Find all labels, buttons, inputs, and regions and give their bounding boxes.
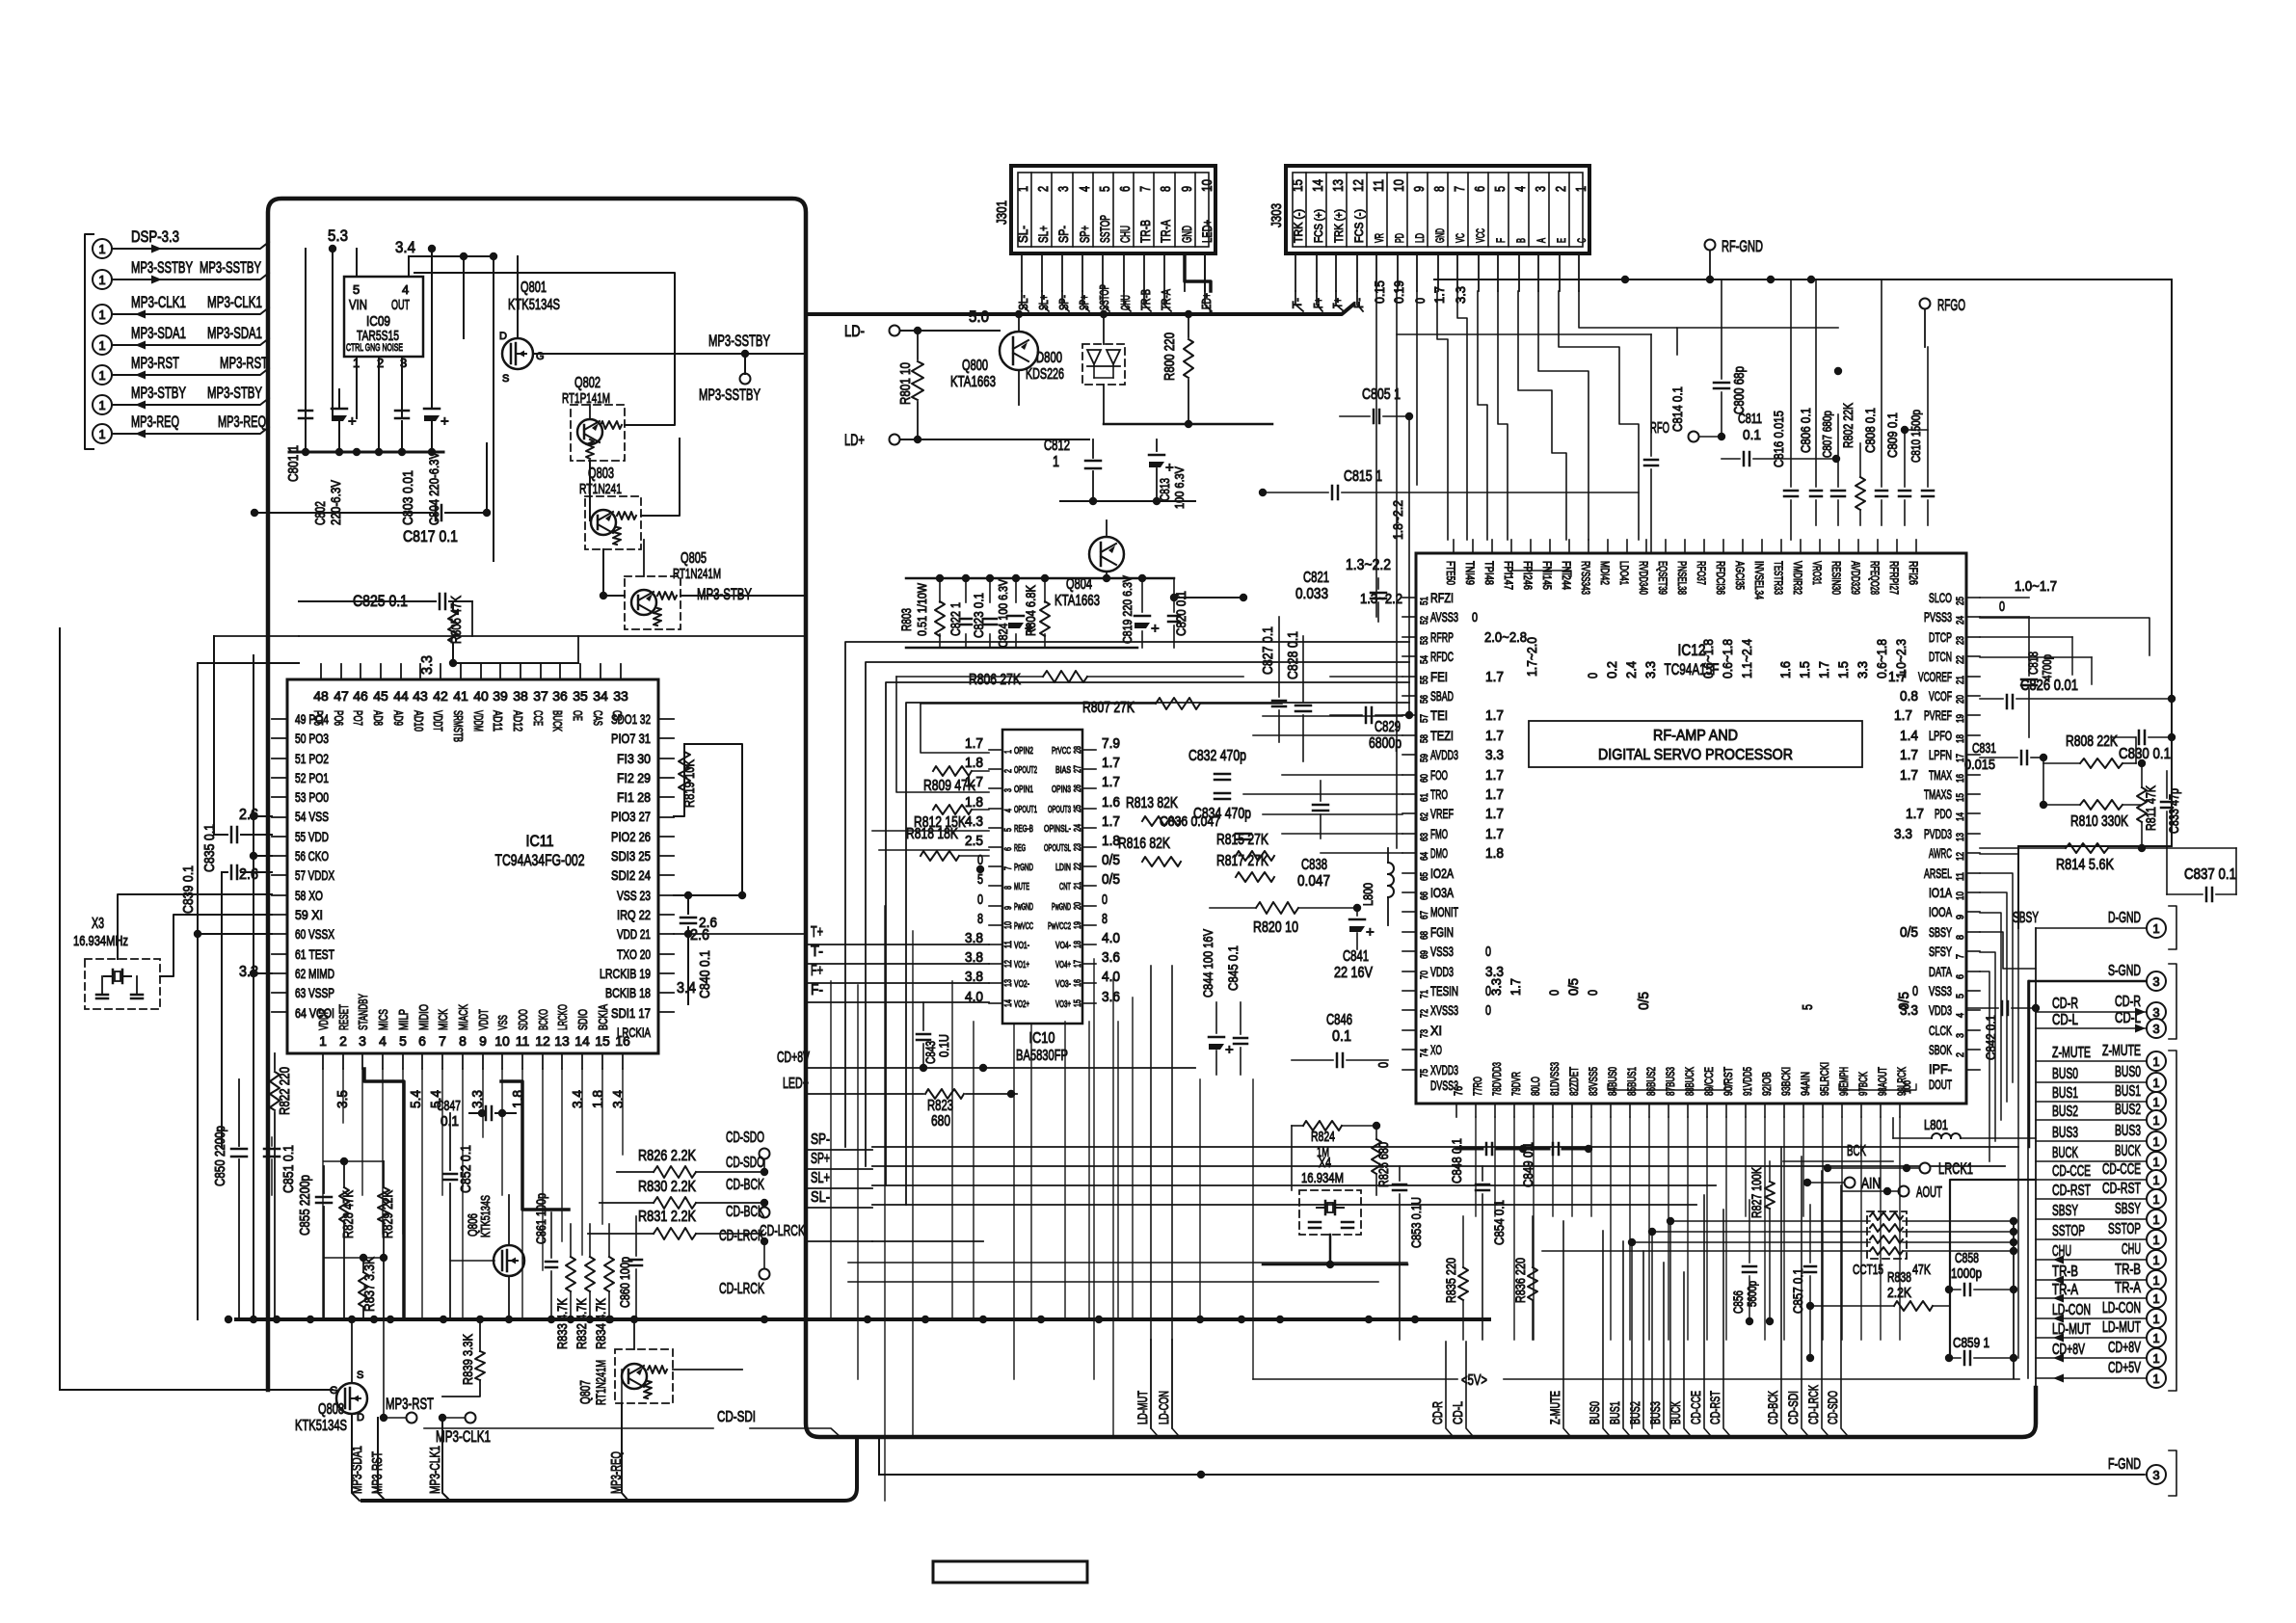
svg-text:R834 4.7K: R834 4.7K (593, 1297, 608, 1349)
svg-text:TESIN: TESIN (1430, 983, 1458, 998)
svg-text:6: 6 (1472, 186, 1488, 192)
IC12 pin 33 TESTR (1780, 540, 1782, 553)
edge port BUS2 (2147, 1110, 2166, 1130)
transistor Q801 KTK5134S (502, 338, 533, 369)
svg-text:22: 22 (1073, 863, 1083, 870)
IC12 pin 92 IOB (1764, 1104, 1766, 1117)
IC12 pin 57 TEI (1402, 714, 1416, 716)
svg-text:VDDT: VDDT (476, 1009, 491, 1030)
svg-text:16: 16 (1955, 774, 1966, 783)
svg-text:91VDD5: 91VDD5 (1741, 1067, 1754, 1096)
IC10 pin 16 VO3- (1082, 982, 1096, 984)
IC12 pin 59 AVDD3 (1402, 754, 1416, 756)
transistor Q805 RT1N241M (625, 576, 681, 629)
svg-text:SL+: SL+ (811, 1170, 830, 1186)
svg-text:8: 8 (1003, 886, 1014, 890)
svg-text:KTK5134S: KTK5134S (508, 297, 560, 313)
svg-text:3: 3 (1055, 186, 1072, 192)
svg-text:BCKIA: BCKIA (596, 1004, 610, 1030)
svg-text:0.047: 0.047 (1297, 873, 1330, 890)
svg-text:RT1N241M: RT1N241M (673, 566, 721, 582)
svg-text:TNI49: TNI49 (1463, 561, 1477, 585)
IC12 pin 5 VSS3 (1966, 990, 1980, 992)
IC12 pin 72 XVSS3 (1402, 1009, 1416, 1011)
svg-text:SP-: SP- (811, 1131, 830, 1148)
IC12 pin 88 BUCK (1687, 1104, 1689, 1117)
IC10 pin 3 OPIN1 (989, 787, 1002, 789)
svg-text:58 XO: 58 XO (295, 888, 323, 903)
svg-text:CD-SDO: CD-SDO (1825, 1391, 1840, 1424)
svg-text:MP3-REQ: MP3-REQ (218, 412, 266, 431)
svg-text:13: 13 (1003, 979, 1014, 987)
IC10 pin 17 VO4+ (1082, 963, 1096, 965)
svg-text:1.5: 1.5 (1835, 661, 1851, 678)
svg-text:R806 27K: R806 27K (969, 672, 1021, 688)
svg-text:Q802: Q802 (574, 375, 601, 391)
svg-text:CD-SDO: CD-SDO (726, 1130, 764, 1146)
svg-text:RFI26: RFI26 (1907, 561, 1920, 585)
svg-text:R816 82K: R816 82K (1118, 836, 1170, 852)
svg-text:SL+: SL+ (1035, 226, 1051, 243)
IC12 pin 25 SLCO (1966, 597, 1980, 599)
svg-text:8: 8 (1955, 935, 1966, 940)
IC11 pin 53 PO0 (272, 796, 287, 798)
svg-text:CD+8V: CD+8V (2052, 1342, 2085, 1358)
svg-text:15: 15 (595, 1033, 610, 1049)
svg-text:MICS: MICS (376, 1009, 390, 1030)
svg-text:0.6~1.8: 0.6~1.8 (1720, 639, 1735, 678)
svg-text:C847: C847 (437, 1098, 461, 1114)
svg-text:97BCK: 97BCK (1856, 1072, 1870, 1096)
IC12 left pin wires (1330, 676, 1402, 678)
svg-text:7.9: 7.9 (1102, 735, 1120, 752)
svg-text:GND: GND (1433, 228, 1447, 243)
svg-text:C805 1: C805 1 (1362, 386, 1401, 403)
svg-text:2: 2 (1003, 769, 1014, 773)
svg-text:C861 100p: C861 100p (533, 1193, 548, 1244)
svg-text:7: 7 (439, 1033, 446, 1049)
svg-text:6: 6 (1955, 974, 1966, 979)
svg-text:T-: T- (811, 944, 823, 960)
IC12 pin 22 DTCN (1966, 655, 1980, 657)
IC11 pin 47 PO6 (340, 664, 342, 679)
svg-text:C848 0.1: C848 0.1 (1449, 1138, 1464, 1184)
svg-text:MDI42: MDI42 (1598, 561, 1612, 585)
IC10 pin 14 VO2+ (989, 1002, 1002, 1004)
wire DSP-3.3 to IC09 VIN (356, 249, 358, 277)
svg-text:72: 72 (1419, 1009, 1430, 1018)
svg-text:8: 8 (1431, 186, 1448, 192)
capacitor C801 1 (305, 249, 307, 452)
IC12 pin 52 AVSS3 (1402, 616, 1416, 618)
svg-text:59 XI: 59 XI (295, 907, 323, 922)
svg-text:VSS 23: VSS 23 (617, 888, 651, 903)
svg-text:0/5: 0/5 (1102, 852, 1120, 868)
IC11 pin 8 (462, 1053, 464, 1069)
svg-text:LPFO: LPFO (1929, 728, 1952, 743)
svg-text:0.1: 0.1 (1743, 427, 1761, 443)
edge port CD-L (2147, 1019, 2166, 1038)
svg-text:0: 0 (1485, 1002, 1491, 1019)
edge port F-GND (2147, 1465, 2166, 1484)
svg-text:CCE: CCE (531, 710, 546, 726)
svg-text:R823: R823 (927, 1098, 953, 1114)
svg-text:0.1: 0.1 (1332, 1028, 1351, 1045)
input port MP3-CLK1 (93, 305, 112, 324)
svg-text:SBSY: SBSY (2115, 1201, 2141, 1217)
svg-text:FTE50: FTE50 (1444, 561, 1457, 585)
capacitor C820 0.1 (1168, 615, 1180, 618)
svg-text:C844 100 16V: C844 100 16V (1200, 928, 1215, 998)
svg-text:SSTOP: SSTOP (2052, 1223, 2085, 1239)
svg-text:60: 60 (1419, 774, 1430, 783)
svg-text:R831 2.2K: R831 2.2K (638, 1209, 696, 1225)
svg-text:1: 1 (1003, 750, 1014, 754)
svg-text:FCS (-): FCS (-) (1352, 209, 1366, 243)
IC12 pin 11 ARSEL (1966, 872, 1980, 874)
svg-text:28: 28 (1073, 746, 1083, 754)
svg-text:66: 66 (1419, 891, 1430, 900)
edge collector verticals (2035, 928, 2037, 1394)
svg-text:1.8~2.2: 1.8~2.2 (1390, 500, 1405, 540)
IC11 pin 42 VDDT (440, 664, 441, 679)
svg-text:C858: C858 (1955, 1250, 1979, 1266)
svg-text:14: 14 (574, 1033, 590, 1049)
svg-text:AWRC: AWRC (1929, 845, 1952, 861)
long horizontals right of module (872, 1146, 2018, 1148)
IC12 pin 67 MONIT (1402, 911, 1416, 913)
IC11 pin 20 TXO (658, 953, 674, 955)
svg-text:24: 24 (1955, 616, 1966, 625)
svg-text:3.3: 3.3 (1485, 964, 1504, 980)
IC11 pin 22 IRQ (658, 914, 674, 916)
svg-text:AVSS3: AVSS3 (1430, 609, 1458, 625)
svg-text:C824 100 6.3V: C824 100 6.3V (996, 579, 1010, 648)
IC12 pin 48 TPI (1491, 540, 1493, 553)
svg-text:15: 15 (1290, 179, 1306, 192)
IC11 pin 23 VSS (658, 894, 674, 896)
svg-text:SBSY: SBSY (2013, 910, 2039, 926)
wires IC09 pins down (356, 357, 358, 418)
svg-text:TR-B: TR-B (2115, 1262, 2141, 1278)
svg-text:5: 5 (977, 871, 983, 888)
IC10 pin 26 OPIN3 (1082, 787, 1096, 789)
svg-text:C821: C821 (1303, 570, 1329, 586)
svg-text:C833 47p: C833 47p (2166, 788, 2181, 834)
svg-text:55: 55 (1419, 676, 1430, 684)
svg-text:19: 19 (1073, 921, 1083, 929)
svg-text:PwGND: PwGND (1052, 902, 1071, 913)
svg-text:+: + (348, 413, 357, 430)
svg-text:11: 11 (1955, 872, 1966, 881)
svg-text:15: 15 (1955, 793, 1966, 802)
svg-text:LRCKO: LRCKO (555, 1004, 570, 1030)
IC12 pin 17 LPFN (1966, 754, 1980, 756)
svg-text:TESTR33: TESTR33 (1772, 561, 1785, 595)
svg-text:SBOK: SBOK (1929, 1042, 1952, 1057)
svg-text:10: 10 (1003, 921, 1014, 929)
svg-text:MP3-SSTBY: MP3-SSTBY (699, 386, 761, 404)
svg-text:20: 20 (1073, 902, 1083, 910)
edge port BUS3 (2147, 1131, 2166, 1151)
capacitor C843 0.1U (917, 1033, 930, 1036)
IC12 pin 80 LO (1533, 1104, 1535, 1117)
svg-text:4: 4 (379, 1033, 387, 1049)
svg-text:BUS3: BUS3 (1647, 1401, 1663, 1424)
svg-text:F: F (1494, 238, 1508, 243)
svg-text:BUCK: BUCK (2115, 1143, 2141, 1159)
svg-text:CTRL GNG NOISE: CTRL GNG NOISE (346, 342, 403, 354)
svg-text:VREF: VREF (1430, 806, 1454, 821)
svg-text:B: B (1514, 238, 1528, 243)
terminal LRCK1 (1920, 1163, 1931, 1174)
svg-text:PVDD3: PVDD3 (1924, 826, 1952, 841)
IC12 pin 64 DMO (1402, 852, 1416, 854)
svg-text:XVSS3: XVSS3 (1430, 1002, 1458, 1018)
IC11 pin 43 AD10 (419, 664, 421, 679)
svg-text:PVREF: PVREF (1924, 707, 1952, 723)
svg-text:PrGND: PrGND (1014, 863, 1033, 873)
svg-text:68: 68 (1419, 931, 1430, 940)
resistors R833 R832 R834 4.7K (566, 1257, 575, 1291)
svg-text:16: 16 (615, 1033, 630, 1049)
svg-text:XI: XI (1430, 1023, 1442, 1038)
resistor R820 10 (1256, 902, 1298, 914)
MP3 bottom thick bus (362, 1437, 857, 1501)
svg-text:D: D (499, 331, 507, 342)
svg-text:F-: F- (811, 982, 823, 998)
svg-text:CD-RST: CD-RST (2102, 1181, 2141, 1197)
IC12 pin 95 LRCKI (1822, 1104, 1824, 1117)
svg-text:21: 21 (1955, 676, 1966, 684)
IC12 pin 77 RO (1475, 1104, 1477, 1117)
IC11 pin 16 (622, 1053, 624, 1069)
svg-text:0.2: 0.2 (1604, 661, 1619, 678)
svg-text:IOOA: IOOA (1929, 904, 1952, 919)
svg-text:3.4: 3.4 (677, 980, 696, 997)
svg-text:TPI48: TPI48 (1482, 561, 1496, 585)
svg-text:RT1N241: RT1N241 (579, 481, 622, 497)
svg-text:MUTE: MUTE (1014, 882, 1029, 892)
IC11 pin 63 VSSP (272, 992, 287, 994)
svg-text:BUS2: BUS2 (2115, 1102, 2141, 1118)
svg-text:PwGND: PwGND (1014, 902, 1033, 913)
svg-text:22 16V: 22 16V (1334, 965, 1373, 981)
IC12 pin 74 XO (1402, 1049, 1416, 1051)
svg-text:Z-MUTE: Z-MUTE (1547, 1391, 1562, 1424)
svg-text:OPIN2: OPIN2 (1014, 746, 1033, 757)
svg-text:SLCO: SLCO (1929, 590, 1952, 605)
svg-text:1.7: 1.7 (1431, 286, 1447, 304)
svg-text:VO2+: VO2+ (1014, 999, 1029, 1010)
capacitor C803 0.01 (395, 410, 409, 412)
IC12 pin 91 VDD5 (1745, 1104, 1747, 1117)
IC12 pin 65 IO2A (1402, 872, 1416, 874)
svg-text:8: 8 (459, 1033, 467, 1049)
svg-text:0.8: 0.8 (1900, 688, 1918, 705)
IC12 pin 42 MDI (1607, 540, 1609, 553)
svg-text:VCOREF: VCOREF (1918, 669, 1952, 684)
svg-text:C809 0.1: C809 0.1 (1884, 412, 1900, 458)
IC12 pin 46 FPI2 (1530, 540, 1532, 553)
capacitor C819 220 6.3V (1135, 615, 1150, 618)
IC10 pin 9 PwGND (989, 905, 1002, 907)
svg-text:L800: L800 (1360, 883, 1375, 906)
svg-text:67: 67 (1419, 911, 1430, 919)
svg-text:LD-MUT: LD-MUT (2052, 1321, 2091, 1338)
svg-text:1: 1 (2152, 1134, 2159, 1149)
svg-text:10: 10 (1955, 891, 1966, 900)
svg-text:R830 2.2K: R830 2.2K (638, 1179, 696, 1195)
svg-text:1: 1 (2152, 1076, 2159, 1090)
svg-text:1.6: 1.6 (1102, 794, 1120, 811)
svg-text:0/5: 0/5 (1565, 978, 1581, 996)
svg-text:OPOUT3: OPOUT3 (1048, 805, 1071, 815)
J303 staircase wires (1375, 291, 1377, 617)
svg-text:CD-LRCK: CD-LRCK (760, 1223, 805, 1239)
svg-text:TR-A: TR-A (2052, 1282, 2078, 1298)
svg-text:78DVDD3: 78DVDD3 (1490, 1062, 1504, 1096)
svg-text:R815 27K: R815 27K (1216, 832, 1268, 848)
svg-text:BUS0: BUS0 (2052, 1066, 2078, 1082)
IC12 pin 21 VCOREF (1966, 676, 1980, 678)
svg-text:12: 12 (1955, 852, 1966, 861)
svg-text:TRK (-): TRK (-) (1292, 209, 1305, 243)
svg-text:1.5: 1.5 (1797, 661, 1812, 678)
resistor R805 47K (448, 610, 458, 643)
IC12 pin 39 EQSET (1665, 540, 1667, 553)
svg-text:1: 1 (2152, 1273, 2159, 1288)
IC12 pin 71 TESIN (1402, 990, 1416, 992)
resistor R829 22K (378, 1187, 389, 1222)
svg-text:3: 3 (1955, 1033, 1966, 1038)
IC10 pin 8 MUTE (989, 885, 1002, 887)
input port MP3-REQ (93, 424, 112, 443)
svg-text:MP3-CLK1: MP3-CLK1 (131, 293, 186, 311)
IC10 pin 28 PrVCC (1082, 749, 1096, 751)
svg-text:3.8: 3.8 (965, 930, 983, 946)
IC11 pin 44 AD9 (400, 664, 402, 679)
transistor Q807 RT1N241M (615, 1349, 673, 1403)
svg-text:LD+: LD+ (844, 431, 865, 449)
IC10 pin 10 PwVCC (989, 924, 1002, 926)
svg-text:D: D (357, 1412, 364, 1423)
svg-text:3.4: 3.4 (570, 1090, 586, 1108)
svg-text:64: 64 (1419, 852, 1430, 861)
svg-text:BCKO: BCKO (536, 1009, 550, 1030)
svg-text:MP3-STBY: MP3-STBY (131, 384, 186, 402)
svg-text:51 PO2: 51 PO2 (295, 751, 329, 766)
svg-text:C857 0.1: C857 0.1 (1790, 1268, 1805, 1314)
svg-text:BUS3: BUS3 (2052, 1125, 2078, 1141)
svg-text:MP3-SDA1: MP3-SDA1 (131, 324, 186, 342)
svg-text:1: 1 (2152, 1192, 2159, 1207)
svg-text:RFZI: RFZI (1430, 590, 1454, 605)
svg-text:C803 0.01: C803 0.01 (400, 470, 416, 525)
svg-text:S-GND: S-GND (2108, 963, 2141, 979)
svg-text:SP+: SP+ (1077, 226, 1092, 243)
svg-text:680: 680 (931, 1113, 950, 1130)
svg-text:R820 10: R820 10 (1253, 919, 1298, 936)
svg-text:FI2 29: FI2 29 (617, 770, 651, 785)
svg-text:96EMPH: 96EMPH (1837, 1067, 1851, 1096)
svg-text:AD8: AD8 (371, 710, 386, 726)
svg-text:40: 40 (473, 688, 489, 704)
IC10 pin 1 OPIN2 (989, 749, 1002, 751)
svg-text:C841: C841 (1343, 948, 1369, 965)
svg-text:52 PO1: 52 PO1 (295, 770, 329, 785)
svg-text:5: 5 (1800, 1004, 1816, 1010)
svg-text:53: 53 (1419, 636, 1430, 645)
svg-text:0: 0 (1472, 609, 1478, 625)
svg-text:VSS3: VSS3 (1430, 944, 1454, 959)
svg-text:IO3A: IO3A (1430, 885, 1454, 900)
capacitor C842 0.1 (2001, 1001, 2004, 1015)
svg-text:R832 4.7K: R832 4.7K (574, 1297, 589, 1349)
filter junction verticals (1950, 1180, 2036, 1358)
svg-text:1.3~2.2: 1.3~2.2 (1346, 557, 1391, 573)
svg-text:1.7: 1.7 (1508, 978, 1523, 996)
svg-text:LD-CON: LD-CON (2102, 1300, 2141, 1317)
svg-text:VDDT: VDDT (431, 710, 445, 732)
svg-text:AD10: AD10 (412, 710, 426, 732)
svg-text:42: 42 (433, 688, 448, 704)
svg-text:BUCK: BUCK (550, 710, 565, 732)
IC12 pin 34 INVSEL (1761, 540, 1763, 553)
svg-text:CHU: CHU (2122, 1241, 2141, 1258)
svg-text:MILP: MILP (396, 1009, 411, 1030)
svg-text:VSS: VSS (495, 1015, 510, 1030)
svg-text:0.19: 0.19 (1391, 280, 1406, 304)
IC12 pin 38 PNSEL (1684, 540, 1686, 553)
svg-text:DMO: DMO (1430, 845, 1448, 861)
svg-text:OPINSL-: OPINSL- (1044, 824, 1071, 835)
IC11 pin 56 CKO (272, 855, 287, 857)
IC10 pin 6 REG (989, 846, 1002, 848)
svg-text:23: 23 (1073, 843, 1083, 851)
IC12 pin 43 RVSS3 (1588, 540, 1589, 553)
svg-text:VO4-: VO4- (1055, 941, 1071, 951)
IC11 pin 10 (501, 1053, 503, 1069)
svg-text:C800 68p: C800 68p (1731, 366, 1748, 414)
IC11 pin 60 VSSX (272, 933, 287, 935)
svg-text:C811: C811 (1738, 411, 1762, 427)
svg-text:3: 3 (1003, 788, 1014, 792)
IC12 pin 54 RFDC (1402, 655, 1416, 657)
IC12 pin 81 DVSS3 (1552, 1104, 1554, 1117)
regulator IC09 TAR5S15 (344, 277, 423, 357)
IC10 pin 22 LDIN (1082, 865, 1096, 867)
svg-text:<5V>: <5V> (1461, 1372, 1487, 1389)
svg-text:OPOUT1: OPOUT1 (1014, 805, 1037, 815)
resistor R811 47K (2137, 787, 2147, 822)
svg-text:LD-MUT: LD-MUT (2102, 1319, 2141, 1336)
svg-text:14: 14 (1003, 999, 1014, 1007)
edge port CD-CCE (2147, 1170, 2166, 1189)
resistor R839 3.3K (475, 1351, 485, 1380)
svg-text:C856: C856 (1730, 1290, 1746, 1314)
svg-text:CD-RST: CD-RST (2052, 1183, 2091, 1199)
svg-text:TRK (+): TRK (+) (1332, 209, 1346, 243)
svg-text:5.0: 5.0 (969, 307, 989, 326)
svg-text:70: 70 (1419, 971, 1430, 979)
connector J301 (1011, 166, 1215, 253)
svg-text:5: 5 (1097, 186, 1113, 192)
svg-text:C806 0.1: C806 0.1 (1798, 408, 1813, 453)
svg-text:1.7~2.0: 1.7~2.0 (1524, 637, 1539, 677)
svg-text:SFSY: SFSY (1929, 944, 1952, 959)
svg-text:1: 1 (1573, 186, 1589, 192)
